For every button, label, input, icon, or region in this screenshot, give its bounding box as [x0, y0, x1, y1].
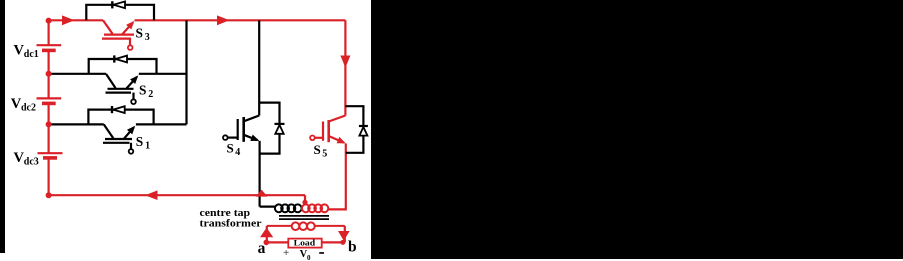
diode loop D5 [345, 106, 363, 153]
label Vdc1 [14, 42, 39, 60]
svg-text:S: S [139, 83, 146, 98]
label S3 [136, 26, 150, 43]
node a dot [264, 240, 270, 246]
switch S1 (black IGBT) [103, 124, 134, 153]
wire: bottom red return [49, 194, 305, 196]
current arrow right (top-middle) [217, 15, 230, 25]
svg-text:1: 1 [145, 141, 150, 152]
transformer primary right (red coil) [302, 204, 328, 212]
wire: S4 collector drop [258, 20, 260, 115]
transformer primary left (black coil) [275, 204, 302, 212]
label S4 [227, 140, 241, 158]
wire: centre tap drop [304, 195, 306, 202]
battery Vdc2 [37, 98, 62, 103]
svg-text:dc3: dc3 [24, 157, 39, 168]
diode D4 [275, 124, 285, 134]
wire: S5 emitter drop [328, 144, 346, 210]
switch S2 (black IGBT) [106, 74, 137, 104]
label Vdc2 [11, 96, 36, 114]
node: centre tap dot [302, 200, 307, 205]
diode loop D1 [88, 110, 153, 125]
wire: S2 bus [49, 73, 187, 75]
node b dot [340, 240, 345, 245]
wire: secondary right leg [344, 226, 346, 243]
transformer secondary (red coil) [267, 222, 345, 230]
svg-text:2: 2 [148, 89, 153, 100]
svg-text:S: S [227, 140, 234, 155]
left black border strip [0, 0, 5, 253]
diode loop D3 [86, 5, 154, 20]
diode D2 [114, 55, 127, 62]
load box [288, 239, 321, 248]
label Vdc3 [14, 150, 39, 168]
current arrow up (node a) [260, 228, 273, 238]
diode loop D4 [259, 103, 279, 154]
svg-text:0: 0 [307, 254, 311, 261]
label Vo [300, 249, 311, 261]
transistor S4 (IGBT) [223, 116, 259, 142]
diode loop D2 [89, 59, 157, 74]
label S5 [314, 142, 328, 160]
svg-text:4: 4 [235, 147, 240, 158]
right black background block [371, 0, 903, 259]
svg-text:S: S [136, 26, 143, 41]
wire: left DC rail segments [47, 20, 49, 195]
label centre tap transformer [200, 207, 262, 229]
svg-text:S: S [136, 134, 143, 149]
wire: secondary left leg [266, 226, 268, 243]
wire: right red vertical (to S5) [344, 20, 346, 115]
svg-text:Load: Load [294, 238, 316, 248]
label S2 [139, 83, 153, 100]
wire: load bottom line [266, 241, 343, 243]
diode D5 [359, 126, 368, 136]
wire: S1 bus [49, 123, 187, 125]
current arrow left (bottom wire) [145, 190, 158, 200]
wire: S4 emitter drop [259, 141, 261, 207]
diode D1 [112, 106, 125, 113]
svg-text:+: + [283, 247, 289, 259]
transformer core [279, 216, 329, 219]
current arrow right (top-left) [62, 15, 75, 25]
svg-text:5: 5 [322, 148, 327, 159]
switch S3 (red IGBT) [102, 20, 134, 50]
label minus [319, 252, 324, 254]
current arrow up (at S4 emitter junction) [256, 190, 268, 197]
svg-text:transformer: transformer [200, 217, 262, 229]
wire: S4 emitter to primary [260, 206, 276, 208]
svg-text:b: b [348, 239, 357, 256]
wire: right collector bus (vertical) [185, 20, 187, 124]
battery Vdc1 [37, 45, 62, 50]
svg-text:S: S [314, 142, 321, 157]
transistor S5 (red IGBT) [310, 116, 345, 143]
svg-text:dc2: dc2 [21, 103, 36, 114]
battery Vdc3 [38, 153, 63, 158]
current arrow down (node b) [338, 231, 350, 241]
wire: top red bus [49, 19, 346, 21]
svg-text:dc1: dc1 [24, 49, 39, 60]
current arrow down (right vertical) [340, 56, 350, 68]
node: rail junction dots [46, 18, 52, 199]
label S1 [136, 134, 150, 152]
svg-text:3: 3 [145, 32, 150, 43]
svg-text:a: a [258, 240, 266, 257]
diode D3 [112, 1, 125, 8]
